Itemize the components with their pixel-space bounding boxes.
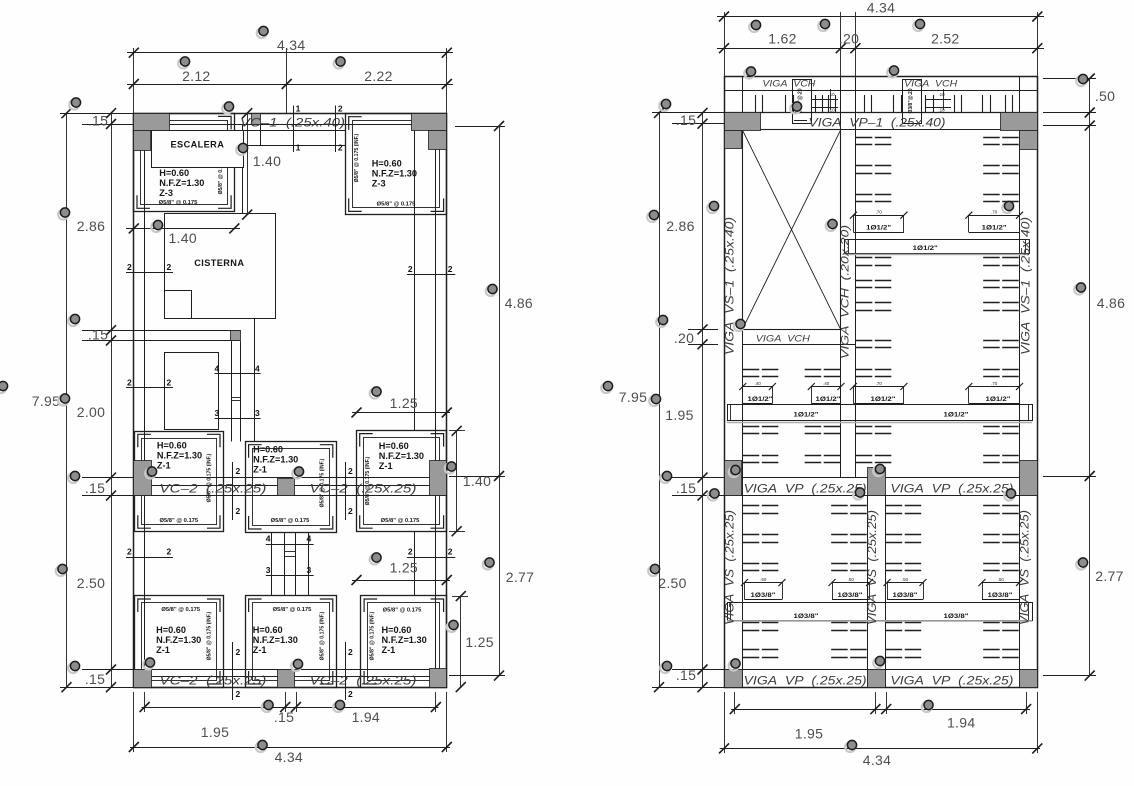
svg-text:.15: .15 [88,327,108,343]
svg-text:Ø5/8" @ 0.175 (INF.): Ø5/8" @ 0.175 (INF.) [365,456,371,505]
right plan: beam layout plan [724,77,1038,688]
svg-text:.50: .50 [1095,88,1115,104]
section mark 2-2 right wall lower [407,557,455,559]
left plan top dimension chain 4.34 [127,37,453,113]
svg-text:2: 2 [348,689,353,699]
svg-text:VIGA VP–1 (.25x.40): VIGA VP–1 (.25x.40) [809,117,946,129]
svg-text:Ø3/8"@.20: Ø3/8"@.20 [908,88,914,113]
svg-text:.40: .40 [754,381,761,386]
svg-text:CISTERNA: CISTERNA [194,258,244,268]
beam VC-1 lower edge line [169,124,411,126]
rebar callout .50 bottom row 4 [979,577,1024,600]
left plan inner wall line left [144,124,146,687]
svg-text:Ø5/8" @ 0.175: Ø5/8" @ 0.175 [273,607,312,613]
left plan left dimension chain [32,108,134,692]
svg-text:.15: .15 [676,667,696,683]
svg-text:1Ø3/8": 1Ø3/8" [893,592,918,599]
top band .10 spacing marks right [925,99,951,101]
svg-text:1Ø1/2": 1Ø1/2" [944,412,969,419]
right plan top chain 1.62 / .20 / 2.52 [717,48,1044,50]
svg-text:2: 2 [236,647,241,657]
svg-text:1Ø3/8": 1Ø3/8" [944,613,969,620]
svg-text:2: 2 [448,547,453,557]
svg-text:2: 2 [167,547,172,557]
svg-text:VC–2 (.25x.25): VC–2 (.25x.25) [310,676,417,688]
left plan: foundation plan [126,104,455,701]
svg-text:N.F.Z=1.30: N.F.Z=1.30 [253,455,298,465]
right plan bottom dimension chains [719,692,1042,768]
svg-text:VIGA VS–1 (.25x.40): VIGA VS–1 (.25x.40) [725,217,737,355]
svg-text:4.34: 4.34 [277,37,305,53]
svg-text:VIGA VP (.25x.25): VIGA VP (.25x.25) [744,676,867,688]
section mark 2-2 left wall lower [126,557,173,559]
svg-text:.10: .10 [828,92,835,97]
foundation beam VC-2 bottom strip line [134,669,447,671]
right plan column bottom-right [1020,670,1038,688]
svg-text:2.77: 2.77 [1095,568,1123,584]
right chain 1.40 (mid-right zapata) [456,431,458,531]
top band .10 spacing marks left [812,99,838,101]
beam VP mid strip lines [724,477,1037,479]
right plan column mid-left [725,461,742,496]
svg-text:.15: .15 [274,709,294,725]
svg-text:Ø5/8" @ 0.175 (INF.): Ø5/8" @ 0.175 (INF.) [354,133,360,182]
svg-text:2.50: 2.50 [658,575,686,591]
section mark 2-2 right wall upper [407,274,455,276]
svg-text:4.34: 4.34 [867,0,895,16]
svg-text:1Ø1/2": 1Ø1/2" [986,396,1011,403]
svg-text:1Ø3/8": 1Ø3/8" [988,592,1013,599]
svg-text:1: 1 [296,143,301,153]
svg-text:VIGA VCH: VIGA VCH [756,334,810,345]
right beam legs [414,131,416,431]
svg-text:2: 2 [236,689,241,699]
svg-text:VC–2 (.25x.25): VC–2 (.25x.25) [159,676,266,688]
svg-text:Z-1: Z-1 [253,645,267,655]
svg-text:2: 2 [127,377,132,387]
svg-text:2.86: 2.86 [77,218,105,234]
svg-text:H=0.60: H=0.60 [372,158,402,168]
top band slab tick marks [756,95,1013,113]
svg-text:ESCALERA: ESCALERA [171,140,225,150]
column bottom-center [278,670,295,688]
rebar callout .70 mid row 3 [850,381,908,404]
svg-text:VC–2 (.25x.25): VC–2 (.25x.25) [310,484,417,496]
CISTERNA box [165,214,276,319]
svg-text:VIGA VS (.25x.25): VIGA VS (.25x.25) [867,510,879,625]
svg-text:.50: .50 [998,577,1005,582]
svg-text:.15: .15 [676,112,696,128]
svg-text:H=0.60: H=0.60 [253,625,283,635]
svg-text:2: 2 [338,104,343,114]
section line 1-1 through VC-1 [293,106,295,153]
column mid-left [134,461,152,496]
left plan overall 7.95 dimension [66,113,68,687]
section mark 2-2 left wall upper [126,272,173,274]
svg-text:Ø5/8" @ 0.175 (INF.): Ø5/8" @ 0.175 (INF.) [207,611,213,660]
zapata Z-1 (mid-left) [135,432,224,532]
svg-text:.50: .50 [902,577,909,582]
svg-text:2.12: 2.12 [182,68,210,84]
svg-text:N.F.Z=1.30: N.F.Z=1.30 [253,635,298,645]
svg-text:.70: .70 [875,210,882,215]
zapata Z-1 (mid-center) [246,442,337,533]
svg-text:.70: .70 [875,381,882,386]
svg-text:VIGA VCH: VIGA VCH [904,79,957,90]
beam label VIGA VP-1 (.25x.40) with leader [794,120,807,122]
left plan right dimension chain [449,121,534,692]
svg-text:1.95: 1.95 [795,726,823,742]
right plan column bottom-left [725,670,743,688]
left plan top chain 2.12 / 2.22 [127,84,453,86]
svg-text:3: 3 [307,565,312,575]
svg-text:.20: .20 [839,31,859,47]
svg-text:N.F.Z=1.30: N.F.Z=1.30 [157,450,202,460]
column bottom-right [430,669,447,688]
svg-text:4: 4 [307,534,312,544]
svg-text:Z-1: Z-1 [157,460,171,470]
svg-text:1Ø3/8": 1Ø3/8" [838,592,863,599]
svg-text:1.95: 1.95 [665,407,693,423]
rebar callout .40 mid row 1 [739,381,776,404]
zapata Z-1 (bot-center) data labels [253,607,326,660]
section mark 2-2 left wall middle [126,387,173,389]
svg-text:Ø5/8" @ 0.175: Ø5/8" @ 0.175 [271,518,310,524]
right plan left dimension chain [619,108,724,692]
center beam legs below center zapata [271,532,273,596]
small column at stair VC-1 [252,114,261,125]
section mark 2 vertical lines bottom strip [232,642,234,700]
foundation beam VC-2 mid strip lines [134,477,447,479]
svg-text:2: 2 [408,547,413,557]
svg-text:2: 2 [348,506,353,516]
small room rectangle [165,353,219,430]
right plan column top-right (L-shape) [1001,113,1038,131]
svg-text:2.52: 2.52 [931,31,959,47]
zapata Z-1 (bot-left) [135,596,224,688]
svg-text:2.00: 2.00 [77,404,105,420]
svg-text:2.77: 2.77 [506,569,534,585]
svg-text:4: 4 [255,363,260,373]
zapata Z-1 (mid-right) data labels [365,441,424,524]
svg-text:1Ø1/2": 1Ø1/2" [913,245,938,252]
svg-text:VIGA VCH (.20x.20): VIGA VCH (.20x.20) [840,225,852,359]
svg-text:Ø5/8" @ 0.175 (INF.): Ø5/8" @ 0.175 (INF.) [369,611,375,660]
wall strip y=330 lines [134,330,241,332]
dim 1.25 bottom-right zapata width [352,560,452,586]
svg-text:1Ø1/2": 1Ø1/2" [748,396,773,403]
svg-text:1Ø3/8": 1Ø3/8" [794,613,819,620]
right plan right dimension chain [1043,74,1125,681]
section mark 4-4 lower [266,544,314,546]
svg-text:1.40: 1.40 [463,473,491,489]
svg-text:Ø5/8" @ 0.175 (INF.): Ø5/8" @ 0.175 (INF.) [320,611,326,660]
column bottom-left [134,670,152,688]
zapata Z-1 (bot-right) [361,596,447,688]
svg-text:.70: .70 [991,381,998,386]
VIGA VCH horizontal strip [742,329,840,331]
right plan top band lines [724,90,1037,92]
svg-text:1Ø1/2": 1Ø1/2" [866,225,891,232]
svg-text:7.95: 7.95 [619,389,647,405]
svg-text:VC–1 (.25x.40): VC–1 (.25x.40) [240,118,345,130]
dim 1.40 cisterna (horizontal) [126,223,240,246]
svg-text:Z-3: Z-3 [159,188,173,198]
right plan column mid-right [1020,461,1038,496]
svg-text:H=0.60: H=0.60 [157,440,187,450]
svg-text:1.62: 1.62 [768,31,796,47]
svg-text:VIGA VP (.25x.25): VIGA VP (.25x.25) [890,484,1013,496]
zapata Z-1 (bot-center) [246,596,337,688]
rebar callout .40 mid row 2 [808,381,845,404]
zapata Z-3 (top-left) [134,114,235,212]
svg-text:N.F.Z=1.30: N.F.Z=1.30 [156,635,201,645]
svg-text:3: 3 [215,408,220,418]
zapata Z-1 (mid-center) data labels [253,445,325,525]
wall line inside mid strip [134,485,447,487]
svg-text:1Ø1/2": 1Ø1/2" [982,225,1007,232]
left plan inner wall line right [435,124,437,687]
svg-text:1.40: 1.40 [253,153,281,169]
long bottom bar box top (1Ø1/2") [845,239,1030,254]
slab rebar dashes bay top-right [856,138,1019,463]
svg-text:.15: .15 [85,671,105,687]
section mark 2 vertical lines mid strip [232,462,234,520]
rebar callout .70 top bay right [965,210,1023,233]
svg-text:2: 2 [408,264,413,274]
svg-text:H=0.60: H=0.60 [156,625,186,635]
svg-text:Z-1: Z-1 [253,465,267,475]
stair shaft X-box [743,130,841,330]
svg-text:2.86: 2.86 [666,218,694,234]
svg-text:4.34: 4.34 [863,752,891,768]
column mid-center [278,479,295,496]
svg-text:.10: .10 [828,108,835,113]
svg-text:2: 2 [167,262,172,272]
svg-text:.10: .10 [938,108,945,113]
svg-text:1Ø1/2": 1Ø1/2" [816,396,841,403]
cisterna notch [164,290,191,292]
svg-text:1Ø1/2": 1Ø1/2" [794,412,819,419]
svg-text:4: 4 [266,534,271,544]
column mid-right [430,461,447,496]
svg-text:1.95: 1.95 [201,724,229,740]
svg-text:N.F.Z=1.30: N.F.Z=1.30 [379,451,424,461]
beam VCH center vertical [840,77,842,478]
svg-text:4.34: 4.34 [275,749,303,765]
svg-text:1Ø1/2": 1Ø1/2" [871,396,896,403]
left plan bottom dimension chains [129,692,452,765]
long bottom bar box bottom (1Ø3/8") [727,602,1033,621]
svg-text:VIGA VS–1 (.25x.40): VIGA VS–1 (.25x.40) [1021,217,1033,355]
rebar callout .70 top bay left [850,210,908,233]
svg-text:1.25: 1.25 [465,634,493,650]
slab rebar dashes bay bottom-left [743,506,867,658]
zapata Z-1 (mid-right) [357,431,447,532]
column top-right (L-shape) [412,114,447,131]
zapata Z-1 (mid-left) data labels [157,440,213,524]
svg-text:Z-1: Z-1 [379,461,393,471]
beam VS-1 left inner edge [742,77,744,688]
svg-text:.10: .10 [938,92,945,97]
svg-text:Z-1: Z-1 [156,645,170,655]
svg-text:2: 2 [127,547,132,557]
section line 2-2 through VC-1 [335,106,337,153]
right plan overall 7.95 dimension [659,113,661,687]
svg-text:.70: .70 [991,210,998,215]
rebar callout .50 bottom row 2 [829,577,874,600]
svg-text:2: 2 [348,466,353,476]
svg-text:4.86: 4.86 [1097,295,1125,311]
dim 1.25 mid-right zapata width [352,395,452,418]
cisterna-to-strip connector line [254,318,256,441]
svg-text:1: 1 [296,104,301,114]
right plan outer perimeter [725,77,1038,688]
svg-text:7.95: 7.95 [32,393,60,409]
rebar callout .50 bottom row 3 [884,577,927,600]
svg-text:VIGA VP (.25x.25): VIGA VP (.25x.25) [890,676,1013,688]
svg-text:4: 4 [215,363,220,373]
svg-text:VC–2 (.25x.25): VC–2 (.25x.25) [159,484,266,496]
svg-text:VIGA VCH: VIGA VCH [762,79,815,90]
svg-text:3: 3 [255,408,260,418]
slab rebar dashes bay bottom-right [886,506,1019,658]
svg-text:2.22: 2.22 [364,68,392,84]
svg-text:Z-1: Z-1 [382,645,396,655]
svg-text:H=0.60: H=0.60 [253,445,283,455]
right plan top dimension chain 4.34 [717,0,1044,77]
section mark 3-3 upper [215,418,261,420]
zapata Z-3 (top-left) data labels [159,145,224,206]
svg-text:.15: .15 [88,113,108,129]
svg-text:2: 2 [127,262,132,272]
svg-text:Ø5/8" @ 0.175: Ø5/8" @ 0.175 [159,200,198,206]
svg-text:Ø5/8" @ 0.175: Ø5/8" @ 0.175 [377,202,416,208]
svg-text:Ø5/8" @ 0.175: Ø5/8" @ 0.175 [383,608,422,614]
zapata Z-3 (top-right) [346,114,447,215]
beam VS center vertical (bottom half) [867,496,869,688]
svg-text:VIGA VS (.25x.25): VIGA VS (.25x.25) [1020,510,1032,625]
svg-text:H=0.60: H=0.60 [379,441,409,451]
VCH label box right [903,80,922,124]
right plan column mid-center [868,468,886,496]
small column at wall strip [231,331,241,341]
right plan column top-left (L-shape) [725,113,761,131]
svg-text:N.F.Z=1.30: N.F.Z=1.30 [159,178,204,188]
svg-text:.15: .15 [85,480,105,496]
svg-text:VIGA VS (.25x.25): VIGA VS (.25x.25) [725,510,737,625]
svg-text:Z-3: Z-3 [372,178,386,188]
section mark 4-4 upper [215,373,261,375]
beam VP bottom strip line [724,669,1037,671]
long bottom bar box middle (1Ø1/2") [727,404,1033,422]
section mark 3-3 lower [266,575,314,577]
svg-text:Ø5/8" @ 0.175: Ø5/8" @ 0.175 [161,607,200,613]
svg-text:2: 2 [167,377,172,387]
svg-text:.50: .50 [760,577,767,582]
svg-text:.50: .50 [848,577,855,582]
center beam legs above center zapata [231,341,233,441]
svg-text:2: 2 [338,143,343,153]
svg-text:1.25: 1.25 [390,560,418,576]
VCH label box left [793,80,812,124]
svg-text:H=0.60: H=0.60 [382,625,412,635]
rebar callout .50 bottom row 1 [741,577,786,600]
slab rebar dashes bay top-left [743,370,840,463]
svg-text:1.94: 1.94 [352,709,380,725]
svg-text:N.F.Z=1.30: N.F.Z=1.30 [382,635,427,645]
right plan column bottom-center [868,670,886,688]
right chain 1.25 (bottom-right zapata) [460,596,462,687]
svg-text:VIGA VP (.25x.25): VIGA VP (.25x.25) [744,484,867,496]
svg-text:Ø5/8" @ 0.175: Ø5/8" @ 0.175 [159,518,198,524]
stair landing edge lines [237,130,345,132]
svg-text:2.50: 2.50 [77,575,105,591]
svg-text:1Ø3/8": 1Ø3/8" [751,592,776,599]
zapata Z-1 (bot-right) data labels [369,608,426,661]
svg-text:.40: .40 [823,381,830,386]
svg-text:4.86: 4.86 [505,295,533,311]
beam VS-1 right inner edge [1019,77,1021,688]
wall line inside bottom strip [134,676,447,678]
svg-text:2: 2 [448,264,453,274]
svg-text:1.25: 1.25 [390,395,418,411]
svg-text:.20: .20 [674,330,694,346]
zapata Z-3 (top-right) data labels [354,133,417,207]
dim 1.40 stair width (vertical) [242,108,281,219]
ESCALERA box [152,131,244,168]
left plan outer wall perimeter [134,114,447,688]
svg-text:3: 3 [266,565,271,575]
svg-text:2: 2 [348,647,353,657]
svg-text:2: 2 [236,506,241,516]
zapata Z-1 (bot-left) data labels [156,607,213,660]
svg-text:H=0.60: H=0.60 [159,168,189,178]
svg-text:.15: .15 [676,480,696,496]
svg-text:2: 2 [236,466,241,476]
svg-text:1.40: 1.40 [168,230,196,246]
stair shaft wall lines [242,124,244,215]
rebar callout .70 mid row 4 [965,381,1023,404]
column top-left (L-shape) [134,114,170,131]
svg-text:N.F.Z=1.30: N.F.Z=1.30 [372,168,417,178]
svg-text:Ø5/8" @ 0.175: Ø5/8" @ 0.175 [381,518,420,524]
svg-text:1.94: 1.94 [947,715,975,731]
